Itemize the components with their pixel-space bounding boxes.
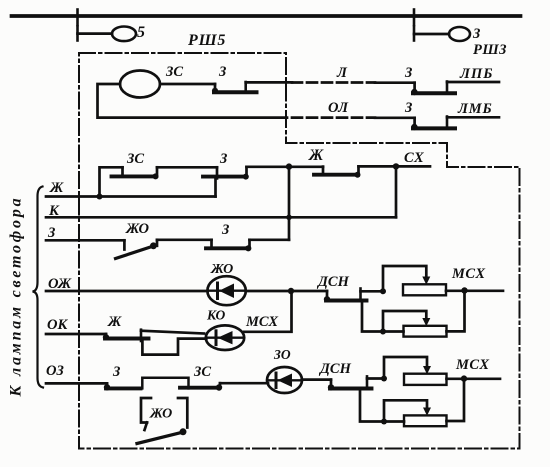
svg-text:5: 5 xyxy=(137,24,145,41)
terminal 5 tick xyxy=(76,27,79,41)
slider arrow lower (ОЖ) xyxy=(422,318,430,326)
contact З-ЛПБ: blade xyxy=(413,91,455,95)
svg-text:З: З xyxy=(47,225,56,241)
wire coil to contact xyxy=(160,83,215,86)
contact ЗС (Ж row): rise xyxy=(156,167,159,176)
svg-text:Л: Л xyxy=(336,65,348,81)
diode element ЖО: circle xyxy=(207,276,245,305)
contact ДСН (ОЖ): output xyxy=(361,290,384,293)
contact З (Ж row): drop xyxy=(216,167,219,178)
svg-text:ЗО: ЗО xyxy=(273,347,291,362)
cable Л dashed xyxy=(292,81,375,84)
svg-text:Ж: Ж xyxy=(49,180,64,196)
lamp wire ОЖ xyxy=(46,290,208,293)
contact ЗС (Ж row): drop xyxy=(121,167,124,175)
terminal З tick xyxy=(413,27,416,41)
svg-text:ЖО: ЖО xyxy=(149,407,172,422)
lamp wire З xyxy=(46,239,124,242)
contact З (З row): drop xyxy=(210,240,213,247)
contact З (ОЗ): drop xyxy=(106,383,109,386)
contact ДСН (ОЖ): pivot dot xyxy=(324,296,330,302)
pusher ЖО (З row): rise xyxy=(156,240,159,246)
wire СХ xyxy=(359,165,431,168)
contact З-ЛПБ: drop xyxy=(413,83,416,91)
resistor upper (ОЗ) xyxy=(404,374,447,385)
contact ДСН (ОЗ): output xyxy=(367,377,384,380)
wire resistor to МСХ node (ОЖ) xyxy=(446,289,503,292)
contact З (Ж row): pivot dot xyxy=(243,174,249,180)
svg-text:ДСН: ДСН xyxy=(316,274,350,290)
vertical x289 down to З row xyxy=(288,167,291,240)
terminal З wire xyxy=(414,33,449,36)
pusher ЖО (З row): pivot dot xyxy=(150,242,157,249)
svg-text:РШ5: РШ5 xyxy=(187,32,226,49)
contact З-ЛМБ: pivot dot xyxy=(411,124,417,130)
svg-text:З: З xyxy=(219,151,228,167)
lamp wire ОК xyxy=(46,333,106,336)
svg-text:ЗС: ЗС xyxy=(165,64,183,80)
node dot on Ж wire xyxy=(97,194,103,200)
svg-text:З: З xyxy=(404,100,413,116)
hook Ж wire to З contact blade xyxy=(214,179,217,197)
contact ДСН (ОЗ): drop xyxy=(330,380,333,387)
svg-text:МСХ: МСХ xyxy=(245,314,278,330)
wire ЗО to ДСН xyxy=(302,378,331,381)
contact Ж: blade xyxy=(314,173,358,177)
svg-text:ЖО: ЖО xyxy=(125,221,150,237)
lamp wire К xyxy=(46,216,396,219)
svg-text:К: К xyxy=(48,203,60,219)
svg-text:ЗС: ЗС xyxy=(193,364,211,380)
pusher ЖО (bottom): left hanger xyxy=(141,398,151,423)
contact ЗС (Ж row): pivot dot xyxy=(153,173,159,179)
svg-text:З: З xyxy=(404,65,413,81)
diode ЖО: cathode bar xyxy=(216,283,219,299)
svg-text:З: З xyxy=(112,364,121,380)
node dot x289 xyxy=(286,163,292,169)
contact З of РШ5: output wire xyxy=(246,81,292,84)
contact З-ЛМБ: output xyxy=(447,116,499,119)
svg-text:З: З xyxy=(472,26,481,42)
contact З of РШ5: blade xyxy=(214,90,257,94)
diode ЗО: cathode bar xyxy=(275,373,278,388)
pusher ЖО (bottom): slanted blade xyxy=(137,432,183,443)
contact З (ОЗ): blade xyxy=(106,386,141,390)
node dot lower (ОЖ) xyxy=(380,329,386,335)
contact ДСН (ОЖ): fixed bar xyxy=(359,289,362,301)
svg-text:СХ: СХ xyxy=(404,150,424,166)
contact Ж: rise xyxy=(357,166,360,174)
contact Ж (ОК): drop+dot xyxy=(105,334,108,337)
diode КО: triangle xyxy=(218,331,233,344)
vertical x396 down to К wire xyxy=(395,166,398,217)
slider loop lower (ОЖ) xyxy=(383,311,426,332)
contact ДСН (ОЖ): blade xyxy=(326,299,367,303)
contact Ж: drop xyxy=(322,167,325,173)
svg-text:Ж: Ж xyxy=(107,314,122,330)
brace (lamp group) xyxy=(33,187,44,388)
pusher ЖО (З row): fixed tip drop xyxy=(123,240,126,249)
contact Ж (ОК): output xyxy=(141,331,204,334)
contact Ж (ОК): blade xyxy=(105,337,149,341)
node СХ dot xyxy=(393,163,399,169)
pusher ЖО (З row): slanted blade xyxy=(116,246,154,259)
svg-text:МСХ: МСХ xyxy=(455,357,490,373)
slider arrow upper (ОЗ) xyxy=(423,366,431,374)
contact З-ЛПБ: output xyxy=(447,81,499,84)
contact З-ЛМБ: fixed bar xyxy=(446,117,449,129)
resistor upper (ОЖ) xyxy=(403,284,446,295)
contact З-ЛПБ: fixed bar xyxy=(446,82,449,94)
node dot lower (ОЗ) xyxy=(381,419,387,425)
node dot МСХ (ОЗ) xyxy=(461,375,467,381)
slider arrow lower (ОЗ) xyxy=(423,408,431,416)
diode element КО: circle xyxy=(206,325,244,350)
contact ЗС (ОЗ): rise xyxy=(219,383,222,387)
contact З-ЛМБ: drop xyxy=(413,118,416,126)
svg-text:Ж: Ж xyxy=(308,147,324,164)
contact ДСН (ОЖ): drop xyxy=(326,291,329,299)
diode КО: axis xyxy=(208,337,243,339)
lamp wire Ж xyxy=(46,195,216,198)
svg-text:РШЗ: РШЗ xyxy=(473,42,507,58)
svg-text:КО: КО xyxy=(206,308,226,323)
contact ДСН (ОЗ): fixed bar xyxy=(366,376,369,388)
slider loop upper (ОЖ) xyxy=(383,266,426,291)
contact З (Ж row): rise xyxy=(245,167,248,177)
lower branch left (ОЖ) xyxy=(362,301,404,332)
wire to ЗО diode xyxy=(220,382,268,385)
wire between ЗС and З xyxy=(157,166,217,169)
svg-text:К лампам светофора: К лампам светофора xyxy=(8,196,25,398)
svg-text:ЖО: ЖО xyxy=(210,262,233,277)
svg-text:ОЛ: ОЛ xyxy=(328,100,349,116)
svg-text:ЗС: ЗС xyxy=(126,151,144,167)
wire to З contact xyxy=(157,238,212,241)
slider arrow upper (ОЖ) xyxy=(422,277,430,285)
wire КО diode up to ОЖ row xyxy=(244,291,291,332)
contact З of РШ5: drop xyxy=(214,84,217,90)
terminal 5 wire xyxy=(78,32,113,35)
svg-text:З: З xyxy=(218,64,227,80)
diode ЗО: axis xyxy=(269,379,301,381)
contact З-ЛПБ: pivot dot xyxy=(411,89,417,95)
diode КО: cathode bar xyxy=(215,331,218,345)
wire diode to ДСН xyxy=(246,290,327,293)
bus bar (top supply line) xyxy=(12,14,521,18)
wire coil left loop down to ОЛ xyxy=(98,84,288,118)
contact Ж (ОК): fixed bar xyxy=(140,330,143,341)
contact З (З row): rise xyxy=(248,240,251,249)
contact Ж (ОК): pivot dot xyxy=(103,334,109,340)
cable ОЛ dashed xyxy=(292,116,375,119)
wire З row to riser xyxy=(250,238,290,241)
contact З of РШ5: pivot dot xyxy=(212,88,218,94)
wire resistor to МСХ node (ОЗ) xyxy=(447,377,501,380)
contact З of РШ5: fixed bar xyxy=(244,82,247,92)
diode element ЗО: circle xyxy=(267,367,302,393)
cabinet dash-dot border xyxy=(79,53,520,449)
diode ЖО: axis xyxy=(209,290,244,292)
diode ЗО: triangle xyxy=(278,374,293,388)
svg-text:З: З xyxy=(221,222,230,238)
contact ДСН (ОЗ): blade xyxy=(330,387,372,391)
node dot МСХ (ОЖ) xyxy=(461,287,467,293)
slider loop upper (ОЗ) xyxy=(384,357,427,379)
node dot before resistor (ОЖ) xyxy=(380,288,386,294)
contact З (Ж row): blade xyxy=(203,175,246,179)
terminal З ring xyxy=(449,27,470,41)
wire Л solid xyxy=(375,81,415,84)
slider loop lower (ОЗ) xyxy=(384,400,427,421)
node dot before resistor (ОЗ) xyxy=(381,376,387,382)
pusher ЖО (bottom): right hanger xyxy=(178,398,187,428)
wire З contact to node xyxy=(247,165,324,168)
contact З (З row): blade xyxy=(206,246,249,250)
svg-text:ОК: ОК xyxy=(47,317,68,333)
svg-text:ОЖ: ОЖ xyxy=(48,276,72,292)
bridge bar З-ЗС (ОЗ) xyxy=(142,378,188,389)
contact З (З row): pivot dot xyxy=(245,245,251,251)
contact ЗС (Ж row): blade xyxy=(112,174,157,178)
lower branch left (ОЗ) xyxy=(360,389,404,422)
resistor lower (ОЖ) xyxy=(404,326,447,337)
U-dip link (ОК) xyxy=(142,339,206,355)
bus tick right xyxy=(413,10,416,26)
pusher ЖО (bottom): fixed tick xyxy=(145,423,148,431)
wire ОЛ solid xyxy=(375,116,415,119)
bus tick left xyxy=(76,10,79,26)
lower branch right (ОЖ) xyxy=(447,291,465,332)
К wire junction dot xyxy=(286,215,292,221)
svg-text:ОЗ: ОЗ xyxy=(46,363,64,379)
svg-text:МСХ: МСХ xyxy=(451,266,486,282)
contact Ж: pivot dot xyxy=(355,172,361,178)
contact ДСН (ОЗ): pivot dot xyxy=(328,384,334,390)
svg-text:ЛПБ: ЛПБ xyxy=(459,66,493,82)
contact ЗС (ОЗ): blade xyxy=(180,386,219,390)
diode ЖО: triangle xyxy=(219,284,234,299)
contact З (ОЗ): pivot dot xyxy=(104,384,110,390)
contact З-ЛМБ: blade xyxy=(413,126,455,130)
lamp wire ОЗ xyxy=(46,382,107,385)
svg-text:ЛМБ: ЛМБ xyxy=(457,101,492,117)
riser from Ж wire to ЗС contact row xyxy=(100,167,123,196)
lower branch right (ОЗ) xyxy=(447,379,465,421)
terminal 5 ring xyxy=(112,27,136,42)
relay coil ЗС xyxy=(120,71,160,98)
contact ЗС (ОЗ): pivot dot xyxy=(216,384,222,390)
resistor lower (ОЗ) xyxy=(404,415,447,426)
node dot ОЖ/ОК link xyxy=(288,288,294,294)
pusher ЖО (bottom): pivot dot xyxy=(180,428,187,435)
svg-text:ДСН: ДСН xyxy=(318,361,352,377)
